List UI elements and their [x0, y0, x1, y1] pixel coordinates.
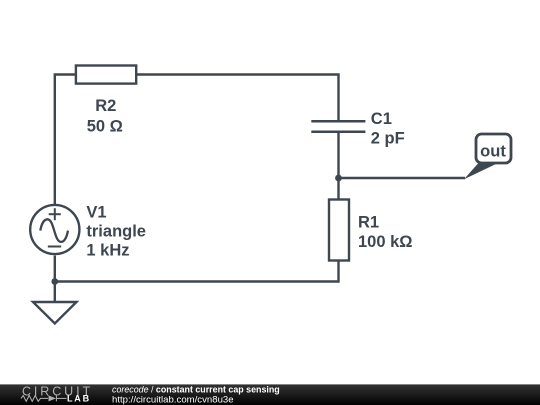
svg-text:R2: R2 [95, 97, 116, 115]
svg-text:C1: C1 [371, 110, 392, 128]
junction node out [335, 175, 342, 182]
svg-text:100 kΩ: 100 kΩ [358, 233, 413, 251]
wire C1 to node (junction) [337, 132, 339, 200]
circuitlab logo squiggle and diode [21, 395, 67, 401]
svg-text:V1: V1 [86, 204, 106, 222]
net flag out tail [464, 164, 497, 180]
svg-text:corecode / constant current ca: corecode / constant current cap sensing [112, 384, 280, 394]
wire node to out flag [339, 177, 466, 179]
svg-text:R1: R1 [358, 214, 379, 232]
ground [33, 302, 77, 324]
svg-text:http://circuitlab.com/cvn8u3e: http://circuitlab.com/cvn8u3e [112, 395, 234, 405]
resistor R2 [76, 66, 136, 84]
svg-text:LAB: LAB [67, 393, 91, 403]
wire top horizontal to C1 branch [136, 75, 338, 122]
svg-text:2 pF: 2 pF [371, 130, 405, 148]
resistor R1 [329, 200, 349, 261]
svg-text:triangle: triangle [86, 223, 146, 241]
wire left vertical (top node to V1) [55, 75, 76, 206]
wire to ground [54, 282, 56, 303]
footer bar [0, 384, 540, 405]
net flag out box [476, 134, 511, 163]
svg-text:out: out [480, 143, 506, 161]
voltage source V1 [30, 205, 79, 254]
junction ground node [51, 278, 58, 285]
svg-text:50 Ω: 50 Ω [87, 118, 123, 136]
svg-text:1 kHz: 1 kHz [86, 242, 129, 260]
wire R1 bottom loop to V1 minus [55, 256, 339, 282]
capacitor C1 [311, 121, 365, 132]
